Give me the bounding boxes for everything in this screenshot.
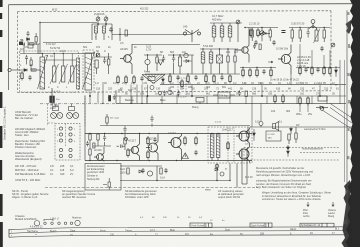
resistor R36	[127, 148, 129, 158]
resistor R35	[89, 149, 91, 155]
wire drops to lower bus	[103, 82, 142, 103]
wire	[34, 44, 40, 54]
capacitor C39	[164, 168, 167, 173]
volume pot box	[213, 92, 235, 98]
bottom rule separator	[45, 187, 258, 189]
knob labels	[30, 217, 82, 229]
input diode cluster	[21, 31, 38, 45]
capacitor C37	[123, 126, 126, 133]
resistor R15	[187, 74, 189, 84]
resistor R45	[30, 60, 32, 66]
resistor R4	[117, 75, 119, 85]
small box N1	[196, 98, 204, 103]
wire	[85, 134, 111, 161]
diode column D9	[335, 66, 338, 77]
capacitor C13	[194, 75, 197, 80]
label resistor row under	[270, 79, 300, 82]
transistor T1	[120, 44, 132, 74]
output transistor T7	[236, 128, 250, 146]
triangle chassis mark	[158, 60, 163, 65]
resistor R59	[106, 114, 108, 126]
resistor R46	[251, 28, 253, 42]
wire rail y=160.5	[85, 160, 252, 162]
resistor R5	[125, 75, 127, 85]
trimmer C27	[260, 28, 264, 42]
FM IF transformer block	[210, 20, 242, 42]
capacitor C33	[253, 44, 256, 49]
resistor R56	[288, 134, 290, 144]
legend box text	[87, 165, 105, 181]
resistor R28	[245, 91, 247, 97]
comps between T2 T3	[253, 44, 261, 50]
wire drops to AM rail	[24, 44, 72, 60]
diode D8	[27, 38, 30, 41]
knob big right	[75, 220, 80, 225]
knob small 3	[58, 222, 60, 224]
diode D4	[316, 106, 328, 109]
IF stage 2 cluster	[168, 53, 194, 74]
small box N2	[318, 96, 327, 101]
terminal block box	[266, 131, 281, 141]
mixer osc comps	[25, 55, 32, 70]
resistor R58	[181, 79, 183, 89]
transistor T4b	[146, 134, 158, 161]
measurement text row 2	[96, 87, 339, 90]
gang arrow	[38, 55, 48, 89]
page frame top border	[9, 3, 353, 6]
capacitor C31	[307, 28, 310, 38]
capacitor C32	[27, 31, 30, 36]
wire drops output feed	[252, 103, 261, 127]
dashed link lines to right	[244, 148, 340, 161]
wire y44.5	[132, 44, 200, 46]
knob row	[34, 219, 80, 226]
dial lamp 2b	[73, 113, 79, 119]
label tuner extra	[46, 43, 106, 53]
wire AM coil rail	[42, 59, 76, 61]
left scan edge black marks	[0, 0, 3, 247]
dial lamp 2a	[67, 113, 73, 119]
wire	[27, 57, 32, 70]
coupling cap C22	[117, 138, 128, 148]
title block line B	[9, 231, 347, 234]
wire bus y=104	[116, 102, 346, 104]
resistor R6	[133, 75, 135, 85]
wire	[210, 23, 242, 42]
trimmer C9	[236, 20, 240, 24]
main dashed enclosure box	[18, 11, 332, 93]
value labels AM coils	[20, 39, 68, 89]
wire	[94, 53, 112, 74]
dashed box output stage	[208, 127, 252, 163]
resistor R49	[299, 28, 301, 43]
trimmer coil L4	[59, 60, 68, 84]
coil L9	[228, 26, 232, 37]
capacitor C38	[141, 168, 144, 173]
AM input terminals	[8, 68, 41, 71]
IF stage 1 cluster	[144, 55, 165, 72]
capacitor C7	[140, 76, 143, 81]
resistor R32	[307, 96, 309, 106]
wire right rail	[296, 67, 340, 69]
circle det2	[184, 53, 188, 57]
resistor R50	[323, 28, 325, 43]
capacitor C28	[254, 40, 257, 45]
diode pair D12	[287, 145, 290, 157]
tuning gang hatched	[83, 52, 95, 90]
wire	[11, 69, 20, 71]
resistor R41	[227, 141, 229, 151]
resistor R18	[229, 74, 231, 84]
right margin inner line	[344, 60, 346, 182]
wire bus y=96	[116, 95, 346, 97]
capacitor C8	[162, 55, 165, 63]
label right pairs	[125, 99, 313, 116]
resistor R19	[242, 68, 244, 78]
wire top rail y=22.5	[40, 22, 97, 24]
wire rail y=133.5	[85, 133, 252, 135]
resistor R16	[205, 74, 207, 84]
wire top right rail 2	[289, 27, 330, 29]
label power left	[120, 168, 165, 180]
resistor R30	[282, 94, 284, 104]
pre title row texts	[140, 217, 225, 222]
tuning capacitor hatched	[38, 54, 48, 89]
resistor R57	[295, 127, 297, 143]
junction dot lower bus	[102, 103, 142, 104]
bottom mid columns row A	[50, 164, 74, 176]
knob small 2	[51, 222, 53, 224]
wire stage rail	[240, 67, 276, 69]
tone cap C19	[177, 91, 180, 97]
wire lamp feed dashdot	[40, 103, 116, 105]
title block line A	[9, 227, 347, 230]
tone cap C18	[158, 91, 166, 97]
resistor R37	[147, 136, 149, 146]
wire top right rail 1	[245, 27, 278, 29]
page frame right border	[346, 10, 348, 228]
dashed box dial lamps	[48, 95, 85, 126]
trimmer coil L5	[68, 60, 77, 84]
resistor R13	[234, 56, 236, 62]
resistor R21	[256, 68, 258, 78]
resistor R12	[227, 56, 229, 62]
arrow down 1	[307, 202, 309, 207]
capacitor C16	[320, 46, 323, 51]
resistor R43	[127, 168, 129, 174]
FM tuner upper cluster	[92, 16, 113, 41]
resistor R29	[274, 94, 276, 104]
coil L2	[103, 26, 106, 33]
measurement text row 1	[95, 82, 335, 85]
coil L1	[95, 26, 98, 33]
power supply left branch	[120, 164, 237, 188]
resistor R53	[21, 71, 23, 81]
resistor R14	[169, 74, 171, 84]
wire	[120, 164, 237, 188]
resistor R54	[124, 134, 126, 151]
arrow down 2	[332, 202, 334, 207]
dashed box AM tuner section	[20, 51, 79, 92]
capacitor C4	[20, 43, 28, 48]
wire top rail y=34.5	[120, 34, 192, 36]
capacitor C11	[172, 55, 175, 63]
box comp K1	[28, 44, 33, 48]
lamp crosses	[52, 114, 78, 118]
wire rail y42.5	[43, 42, 92, 44]
bottom columns row2	[62, 189, 96, 199]
trimmer C2	[104, 17, 108, 21]
wire IF bottom rail	[145, 73, 240, 75]
measurement text row 3	[125, 93, 335, 96]
dashed box tuning gang	[83, 50, 94, 92]
capacitor C14	[220, 75, 223, 80]
trimmer C5	[96, 53, 100, 57]
capacitor column C36	[316, 67, 319, 72]
coil L6	[95, 60, 98, 68]
bottom columns row3	[125, 189, 157, 199]
wiper arrow	[268, 61, 273, 63]
bottom columns row4	[205, 189, 244, 200]
lamp labels	[50, 104, 59, 110]
dashed column trap	[178, 78, 186, 97]
crystal X1	[217, 55, 223, 63]
knob small 1	[44, 222, 46, 224]
circle det4	[168, 90, 172, 94]
value labels IF strip	[96, 42, 323, 92]
title block box 3	[300, 223, 334, 227]
wire	[36, 69, 41, 71]
coil L11	[201, 52, 205, 63]
trimmer coil L13	[314, 28, 321, 44]
diode D3	[183, 60, 192, 63]
knob small 4	[64, 222, 66, 224]
resistor R44	[160, 168, 162, 174]
wire	[92, 16, 112, 41]
circle det3	[320, 107, 324, 111]
connector contact circles	[59, 127, 72, 158]
wire	[41, 54, 43, 57]
wire output top rail	[250, 126, 352, 128]
dial lamp 1a	[51, 113, 57, 119]
elco blob	[19, 42, 23, 46]
capacitor C20	[238, 90, 241, 96]
diode D6	[139, 170, 142, 173]
resistor R38	[147, 150, 149, 160]
transistor T4	[94, 147, 104, 162]
coil L12	[209, 52, 213, 63]
capacitor C40	[150, 116, 153, 127]
resistor column R26	[329, 66, 331, 76]
diode D1	[24, 69, 27, 72]
wire right verticals	[300, 44, 340, 84]
filter cap C30	[282, 31, 286, 33]
resistor R39	[184, 136, 186, 146]
right scan edge black band	[342, 0, 360, 247]
circle pilot2	[220, 172, 224, 176]
resistor R55	[247, 127, 249, 142]
knob small 5	[70, 222, 72, 224]
antenna symbol	[309, 20, 317, 29]
comps right of volume	[238, 90, 247, 96]
gang arrow 2	[83, 52, 95, 89]
bracket	[44, 219, 53, 221]
oscillator coils top cluster	[112, 28, 127, 41]
title block left edge	[8, 229, 10, 237]
text block chassis	[15, 214, 37, 221]
capacitor C26	[25, 55, 28, 60]
lamp bracket 1	[53, 104, 59, 111]
right band speckle	[344, 12, 350, 224]
coil L7	[212, 26, 216, 37]
node TA	[8, 68, 11, 71]
title block row texts	[11, 228, 340, 234]
resistor R20	[249, 68, 251, 78]
capacitor C24	[194, 150, 197, 155]
trimmer C1	[96, 17, 100, 21]
circle det	[145, 59, 150, 64]
lamp bracket 2	[69, 104, 75, 111]
junction dots right rail	[299, 67, 336, 86]
resistor R52	[259, 44, 261, 50]
transistor T2	[235, 28, 249, 63]
wire	[112, 28, 120, 41]
coil L10	[179, 57, 182, 66]
electrolytic M1	[50, 88, 55, 106]
capacitor C12	[176, 75, 179, 80]
capacitor C15	[262, 69, 265, 74]
resistor R10	[257, 28, 259, 38]
resistor R33	[89, 134, 91, 140]
dashed box connector strip	[55, 124, 80, 161]
legend box	[85, 164, 121, 191]
diode D2	[260, 32, 270, 35]
antenna Y symbol	[184, 30, 201, 43]
wire rail y=125.5	[100, 125, 250, 127]
diode D10	[290, 127, 293, 134]
capacitor C41	[86, 141, 89, 146]
driver transformer	[211, 134, 220, 161]
resistor R34	[97, 134, 99, 140]
resistor R48	[291, 28, 293, 43]
FM mixer cluster	[94, 53, 112, 74]
capacitor C34	[28, 75, 31, 80]
capacitor C23	[153, 137, 156, 142]
wire drop x=40	[39, 23, 41, 55]
transistor T9	[147, 171, 152, 176]
resistor R2	[29, 43, 34, 45]
resistor R22	[270, 68, 272, 78]
circle pilot	[215, 164, 219, 168]
coil column L14	[77, 58, 80, 89]
trimmer C17	[331, 43, 335, 47]
capacitor C3	[109, 27, 113, 32]
dial lamp 1b	[57, 113, 63, 119]
diode pair D13	[162, 77, 165, 84]
dashed vertical lamp left	[47, 104, 49, 126]
resistor R60	[93, 143, 95, 148]
resistor R40	[195, 136, 197, 146]
speaker small	[273, 122, 279, 131]
transistor T3	[278, 45, 291, 75]
resistor column R24	[311, 66, 313, 76]
wire AM rail y53.5	[20, 53, 94, 55]
resistor R9	[250, 28, 252, 38]
IF transformer 2	[200, 49, 238, 74]
indicator lamp	[259, 122, 263, 128]
text block alignment notes	[15, 127, 46, 161]
AF preamp cluster	[85, 134, 111, 161]
resistor R7	[125, 30, 127, 36]
wire right bundle	[300, 103, 352, 129]
title block line C	[9, 235, 347, 237]
resistor R1	[31, 69, 36, 71]
knob big left	[34, 221, 39, 226]
resistor column R25	[323, 66, 325, 76]
transistor T5	[128, 134, 140, 161]
wire feeder x85	[84, 96, 86, 134]
antenna trap cluster	[20, 43, 40, 55]
rectifier block	[242, 148, 247, 184]
junction stubs from buses	[89, 75, 340, 105]
resistor R17	[213, 74, 215, 84]
comb stubs mid bus	[132, 96, 327, 104]
right paragraph block	[256, 167, 331, 201]
text block band table	[15, 164, 46, 182]
junction dots	[97, 23, 98, 24]
capacitor C21	[103, 135, 106, 142]
wire	[212, 134, 218, 161]
wire	[144, 55, 162, 72]
output transistor T8	[236, 145, 250, 163]
capacitor column C35	[304, 67, 307, 72]
diode D7	[215, 168, 218, 171]
diode D11	[253, 129, 256, 141]
resistor R51	[35, 37, 37, 43]
transistor T6	[168, 134, 182, 161]
wire	[168, 55, 194, 74]
trimmer coil L3	[50, 60, 59, 84]
resistor R31	[299, 96, 301, 106]
resistor R3	[108, 59, 110, 65]
wire bus y=84.7	[160, 84, 346, 86]
dashed partition output box	[227, 127, 229, 163]
capacitor C6	[103, 58, 106, 64]
legend glyph	[103, 178, 110, 190]
resistor R47	[269, 28, 271, 42]
capacitor C29	[272, 40, 275, 45]
warning triangle	[182, 153, 188, 159]
title block box 1	[190, 223, 212, 228]
wire	[200, 49, 238, 74]
title block box 2	[250, 223, 272, 227]
bottom columns row1	[12, 189, 49, 199]
connector pin labels	[57, 129, 76, 143]
ferrite rod antenna	[142, 75, 165, 90]
label pfeil	[303, 209, 337, 218]
resistor R8	[156, 57, 158, 63]
junction dots rails	[39, 22, 325, 181]
shield box comps	[109, 95, 116, 102]
text block tuner notes	[15, 110, 38, 120]
coil L8	[220, 26, 224, 37]
resistor column R23	[299, 66, 301, 76]
page frame left border	[8, 5, 10, 90]
